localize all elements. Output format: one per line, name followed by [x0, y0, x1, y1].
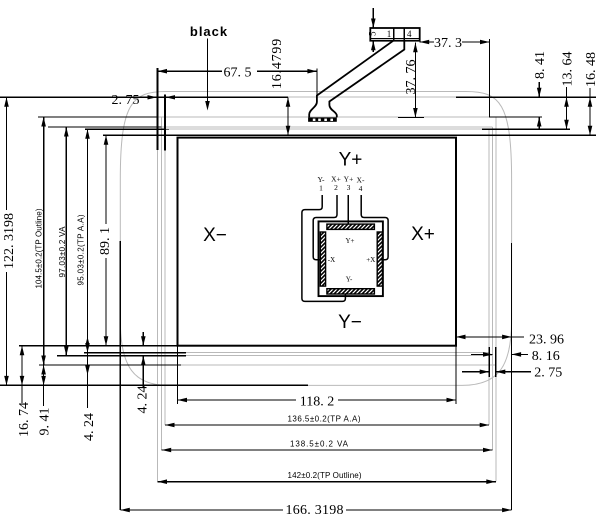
dim 136.5 AA	[165, 415, 489, 428]
TP left ext vertical thick	[157, 68, 159, 150]
TP bottom line	[39, 364, 496, 366]
dim 2.75 top-left	[112, 93, 176, 108]
wire pin1	[302, 195, 346, 301]
dim 37.76	[398, 43, 424, 118]
dim 8.16	[471, 349, 560, 364]
VA bottom line	[57, 355, 493, 357]
svg-text:X−: X−	[203, 225, 227, 246]
AA right ext stub	[488, 347, 490, 377]
AA top line	[85, 128, 570, 130]
svg-text:4. 24: 4. 24	[82, 413, 97, 441]
dim 67.5	[158, 65, 317, 80]
svg-text:Y-: Y-	[346, 276, 353, 284]
svg-text:Y−: Y−	[338, 312, 362, 333]
gray VA left vertical	[161, 117, 163, 450]
dim 166.3198	[120, 503, 511, 518]
dim 5 connector height	[368, 8, 378, 52]
outer right vertical	[511, 243, 513, 510]
svg-text:2. 75: 2. 75	[112, 93, 140, 108]
svg-text:136.5±0.2(TP A.A): 136.5±0.2(TP A.A)	[288, 415, 361, 424]
electrode left hatched	[320, 232, 325, 286]
wire pin4	[361, 195, 388, 260]
FPC left ext up	[316, 69, 318, 97]
svg-text:138.5±0.2 VA: 138.5±0.2 VA	[290, 440, 349, 449]
svg-text:4. 24: 4. 24	[136, 386, 151, 414]
dim 2.75 bottom-right	[462, 365, 562, 380]
svg-text:8. 41: 8. 41	[533, 51, 548, 79]
svg-text:2: 2	[334, 183, 338, 192]
outer top line	[0, 96, 288, 98]
svg-text:104.5±0.2(TP Outline): 104.5±0.2(TP Outline)	[35, 208, 44, 288]
dim 122.3198	[2, 97, 17, 385]
svg-text:16. 48: 16. 48	[584, 52, 599, 87]
dim 118.2	[178, 394, 457, 409]
wire pin3	[347, 195, 349, 225]
svg-text:3: 3	[347, 183, 351, 192]
svg-text:4: 4	[359, 184, 363, 193]
gray TP outline left vertical	[157, 150, 159, 482]
FPC ribbon right edge	[329, 41, 404, 118]
electrode right hatched	[377, 232, 382, 286]
dim 13.64	[561, 52, 576, 130]
svg-text:2. 75: 2. 75	[534, 365, 562, 380]
svg-text:8. 16: 8. 16	[532, 349, 560, 364]
capsule film outline gray rounded	[120, 92, 511, 386]
rect right ext down	[455, 346, 457, 404]
electrode top hatched	[327, 224, 375, 229]
svg-text:97.03±0.2 VA: 97.03±0.2 VA	[58, 226, 67, 278]
dim 16.74	[17, 346, 32, 437]
outer left vertical	[119, 241, 121, 510]
dim 138.5 VA	[162, 440, 493, 453]
rect left ext down	[177, 346, 179, 404]
connector	[370, 28, 419, 41]
svg-text:1: 1	[319, 184, 323, 193]
TP right ext stub	[495, 347, 497, 377]
svg-text:+X: +X	[366, 256, 375, 264]
dim 97.03 VA	[58, 127, 69, 356]
svg-text:Y+: Y+	[345, 237, 354, 245]
svg-text:4: 4	[407, 29, 412, 39]
dim 8.41	[533, 51, 548, 130]
svg-text:23. 96: 23. 96	[529, 333, 564, 348]
svg-text:37. 3: 37. 3	[434, 36, 462, 51]
outer bottom line	[0, 384, 308, 386]
gray AA right vertical	[488, 129, 490, 425]
dim 95.03 AA	[77, 129, 90, 408]
dim 142 TP outline	[158, 471, 496, 484]
wire pin2	[313, 195, 337, 260]
center symbol box	[319, 221, 383, 296]
svg-text:16. 74: 16. 74	[17, 402, 32, 437]
svg-text:142±0.2(TP Outline): 142±0.2(TP Outline)	[288, 471, 362, 480]
svg-text:89. 1: 89. 1	[98, 227, 113, 255]
TP outline top line	[38, 116, 542, 118]
svg-text:X+: X+	[411, 224, 435, 245]
svg-text:16.4799: 16.4799	[270, 38, 285, 89]
dim 9.41	[38, 365, 53, 436]
svg-text:9. 41: 9. 41	[38, 408, 53, 436]
AA left ext vertical thick	[164, 95, 166, 151]
svg-text:1: 1	[387, 29, 392, 39]
gray TP right vertical	[495, 117, 497, 482]
svg-text:118. 2: 118. 2	[300, 394, 334, 409]
svg-text:122. 3198: 122. 3198	[2, 213, 17, 269]
gray AA left vertical	[164, 151, 166, 425]
label black	[190, 24, 228, 111]
FPC foot contact strip	[308, 117, 337, 121]
svg-text:Y+: Y+	[339, 150, 363, 171]
rect top extended line	[103, 134, 596, 136]
gray VA right vertical	[492, 127, 494, 450]
svg-text:37. 76: 37. 76	[404, 60, 419, 95]
svg-text:67. 5: 67. 5	[224, 65, 252, 80]
dim 16.4799	[270, 38, 290, 135]
svg-text:95.03±0.2(TP A.A): 95.03±0.2(TP A.A)	[77, 214, 86, 285]
svg-text:13. 64: 13. 64	[561, 52, 576, 87]
electrode bottom hatched	[327, 289, 375, 294]
pin labels	[317, 175, 365, 194]
svg-text:black: black	[190, 24, 228, 39]
dim 23.96	[456, 333, 564, 348]
AA bottom line	[84, 352, 489, 354]
svg-text:166. 3198: 166. 3198	[286, 503, 344, 518]
inner electrode labels	[328, 237, 376, 284]
svg-text:-X: -X	[328, 256, 335, 264]
svg-text:5: 5	[368, 31, 378, 36]
FPC ribbon left edge	[309, 41, 393, 118]
dim 4.24 b	[136, 332, 151, 414]
VA top line	[48, 126, 493, 128]
main ITO rectangle	[178, 138, 457, 346]
dim 16.48	[584, 52, 599, 135]
dim 37.3	[420, 36, 490, 117]
rect bottom extended left	[19, 345, 178, 347]
dim 89.1	[98, 135, 113, 345]
dim 104.5 TP outline	[35, 117, 46, 365]
